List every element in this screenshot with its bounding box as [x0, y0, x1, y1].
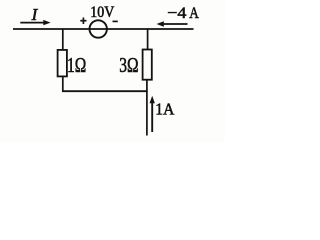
- current arrow -4A: [157, 21, 188, 26]
- current arrow I: [20, 20, 50, 25]
- polarity minus sign: [113, 20, 118, 22]
- wire: bottom horizontal: [62, 90, 148, 92]
- wire: right branch top: [147, 29, 149, 50]
- polarity plus sign: [80, 18, 86, 25]
- svg-text:−4: −4: [167, 3, 186, 22]
- resistor R2 box: [143, 50, 152, 80]
- current arrow 1A (up): [150, 96, 155, 132]
- svg-text:3Ω: 3Ω: [119, 53, 138, 77]
- wire: left branch top (node A drop): [62, 29, 64, 50]
- resistor R1 box: [58, 50, 67, 77]
- svg-text:10V: 10V: [90, 2, 114, 21]
- svg-text:1Ω: 1Ω: [67, 53, 86, 77]
- wire: left branch bottom: [62, 76, 64, 91]
- voltage source U1 10V: [90, 20, 107, 37]
- wire: top horizontal bus: [13, 28, 194, 30]
- svg-text:A: A: [189, 3, 199, 22]
- svg-text:1A: 1A: [155, 99, 174, 118]
- wire: right branch lower terminal: [146, 80, 148, 136]
